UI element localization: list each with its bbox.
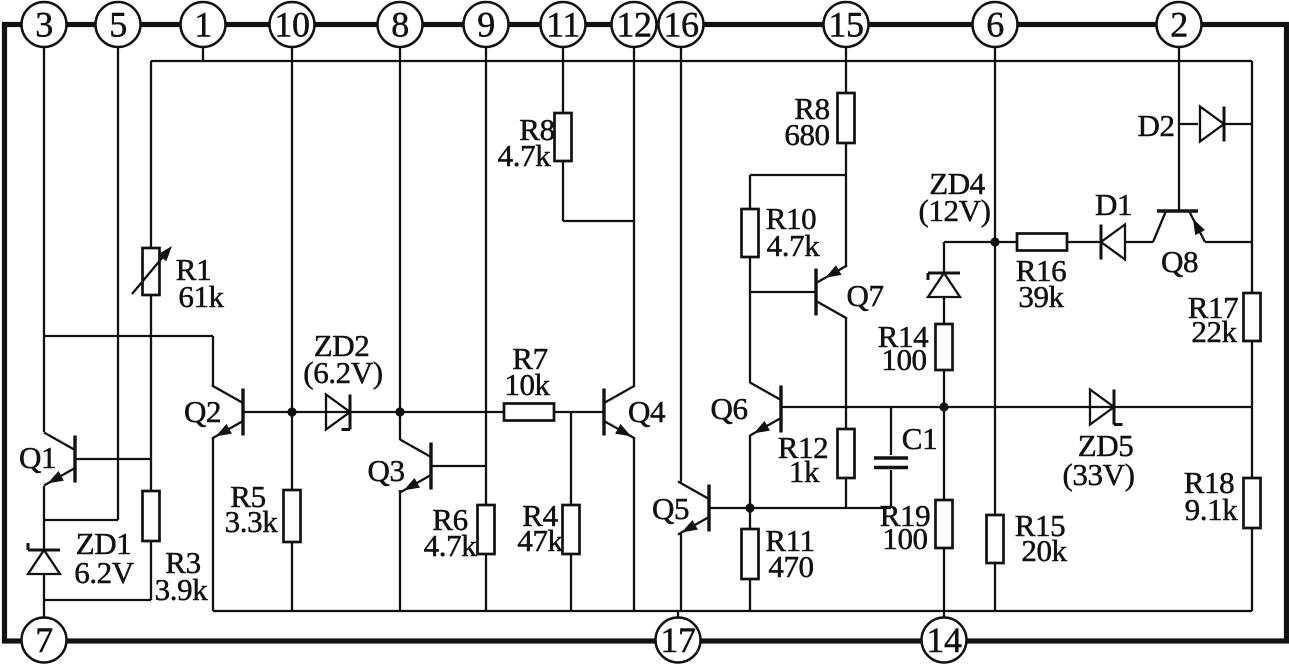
svg-text:1k: 1k [789,454,820,489]
svg-text:Q4: Q4 [628,394,666,429]
svg-text:Q8: Q8 [1161,244,1198,279]
svg-text:Q6: Q6 [710,391,747,426]
svg-text:39k: 39k [1018,279,1064,314]
svg-text:9: 9 [477,5,495,45]
svg-text:47k: 47k [517,523,563,558]
svg-text:(12V): (12V) [918,193,990,228]
svg-text:3.9k: 3.9k [155,572,209,607]
svg-text:17: 17 [660,620,695,660]
svg-text:100: 100 [882,521,927,556]
svg-text:Q1: Q1 [19,440,56,475]
svg-text:15: 15 [828,5,863,45]
svg-text:Q3: Q3 [367,453,404,488]
svg-text:6.2V: 6.2V [74,555,135,590]
svg-text:680: 680 [784,117,829,152]
svg-text:4.7k: 4.7k [424,528,478,563]
svg-text:5: 5 [109,5,127,45]
svg-text:2: 2 [1170,5,1188,45]
svg-text:100: 100 [881,342,926,377]
svg-text:22k: 22k [1191,314,1237,349]
svg-text:Q5: Q5 [652,491,689,526]
svg-text:14: 14 [926,620,962,660]
svg-text:16: 16 [663,5,698,45]
svg-text:8: 8 [391,5,409,45]
svg-text:20k: 20k [1021,533,1067,568]
svg-text:470: 470 [768,549,813,584]
svg-text:6: 6 [986,5,1004,45]
svg-text:3.3k: 3.3k [225,504,279,539]
svg-text:10k: 10k [504,367,550,402]
svg-text:C1: C1 [902,421,937,456]
svg-text:Q7: Q7 [846,278,883,313]
svg-text:7: 7 [35,620,53,660]
svg-text:(6.2V): (6.2V) [303,355,382,390]
svg-text:D1: D1 [1095,187,1132,222]
svg-text:61k: 61k [178,279,224,314]
svg-text:3: 3 [35,5,53,45]
svg-text:9.1k: 9.1k [1185,492,1239,527]
svg-text:4.7k: 4.7k [767,228,821,263]
svg-text:(33V): (33V) [1062,457,1134,492]
svg-text:10: 10 [274,5,309,45]
svg-text:12: 12 [616,5,651,45]
svg-text:1: 1 [194,5,212,45]
svg-text:Q2: Q2 [184,394,221,429]
svg-text:11: 11 [546,5,580,45]
svg-text:4.7k: 4.7k [498,138,552,173]
svg-text:D2: D2 [1137,108,1174,143]
